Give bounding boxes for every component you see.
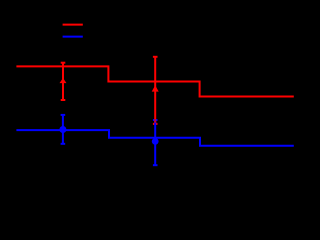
blue step line: [16, 130, 293, 146]
red errorbar 1 vline: [62, 63, 64, 100]
blue errorbar 1 top cap: [61, 114, 66, 116]
blue errorbar 2 circle marker: [152, 138, 159, 145]
blue errorbar 2 vline: [154, 120, 156, 165]
red errorbar 2 vline: [154, 57, 156, 124]
blue errorbar 2 top cap: [153, 119, 158, 121]
red errorbar 1 caret marker: [60, 78, 67, 83]
legend blue handle: [63, 36, 83, 38]
red errorbar 2 top cap: [153, 56, 158, 58]
red step line: [16, 66, 293, 96]
red errorbar 2 vline overdraw across blue top cap: [154, 119, 156, 123]
red errorbar 1 bottom cap: [61, 99, 66, 101]
legend red handle: [63, 24, 83, 26]
red errorbar 2 caret marker: [152, 85, 159, 91]
red errorbar 2 bottom cap: [153, 123, 158, 125]
blue errorbar 2 bottom cap: [153, 164, 158, 166]
blue errorbar 1 bottom cap: [61, 143, 66, 145]
red errorbar 1 top cap: [61, 62, 66, 64]
blue errorbar 1 vline: [62, 115, 64, 144]
blue errorbar 1 circle marker: [59, 126, 66, 133]
